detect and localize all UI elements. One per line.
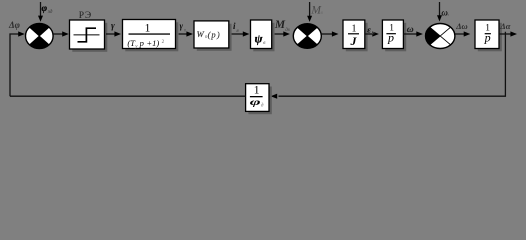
relay characteristic symbol [74, 34, 100, 36]
wire relay to lag block, label γ [106, 20, 121, 36]
svg-text:+1): +1) [146, 38, 159, 48]
feedback block 1/℘ [246, 84, 272, 115]
svg-text:p: p [484, 31, 491, 45]
node label Δφ [8, 20, 20, 30]
gain block ψв [251, 20, 275, 51]
input arrow ωз (top of S3) [437, 2, 449, 22]
wire feedback block to left riser [10, 95, 246, 97]
svg-text:дв: дв [285, 28, 290, 33]
svg-text:ε: ε [367, 25, 371, 35]
svg-text:): ) [216, 30, 220, 40]
wire 1/J to 1/p, label ε [365, 25, 379, 37]
transfer block 1/p (second) [475, 20, 502, 51]
transfer block Wп(p) [194, 21, 232, 51]
svg-text:д: д [372, 31, 374, 36]
svg-text:ψ: ψ [255, 31, 264, 45]
input arrow φзд (top of S1) [38, 2, 53, 22]
summing junction S2 [293, 24, 321, 49]
svg-text:Δα: Δα [499, 21, 510, 31]
summing junction S1 (comparator) [26, 24, 54, 49]
svg-text:Δφ: Δφ [8, 20, 20, 30]
wire 1/p to S3, label ω [404, 25, 423, 37]
input arrow Mв (top of S2) [307, 2, 324, 22]
svg-text:W: W [197, 29, 205, 39]
wire S2 to block 1/J [321, 31, 338, 36]
svg-text:p: p [210, 29, 215, 39]
wire lag block to W block, label γп [179, 21, 193, 37]
wire feedback left riser into comparator input [10, 31, 25, 96]
wire W block to ψ block, label iя [232, 21, 250, 36]
transfer block 1/(Tу p+1)² [123, 20, 179, 52]
svg-text:ω: ω [407, 25, 414, 35]
relay element block РЭ [70, 11, 108, 52]
svg-text:φ: φ [42, 4, 48, 14]
svg-text:1: 1 [352, 23, 357, 34]
svg-text:J: J [350, 34, 358, 48]
svg-text:γ: γ [180, 21, 184, 31]
svg-text:γ: γ [111, 20, 115, 30]
svg-text:1: 1 [254, 84, 260, 96]
summing junction S3 [426, 24, 455, 49]
svg-text:зд: зд [47, 8, 53, 15]
svg-text:1: 1 [145, 22, 151, 34]
svg-text:РЭ: РЭ [79, 11, 92, 21]
wire S1 to relay block [53, 31, 69, 36]
transfer block 1/p (first) [382, 20, 406, 51]
output wire, label Δα [499, 21, 517, 37]
svg-text:з: з [446, 12, 449, 17]
wire ψ block to S2, label Mдв [274, 19, 290, 36]
svg-text:Δω: Δω [455, 21, 467, 31]
svg-text:M: M [274, 19, 286, 31]
wire S3 to output integrator, label Δω [455, 21, 470, 37]
wire output branch down to feedback line [271, 32, 506, 99]
svg-text:φ: φ [250, 97, 261, 107]
svg-text:p: p [139, 38, 144, 48]
transfer block 1/J [343, 20, 368, 51]
svg-text:p: p [387, 31, 394, 45]
